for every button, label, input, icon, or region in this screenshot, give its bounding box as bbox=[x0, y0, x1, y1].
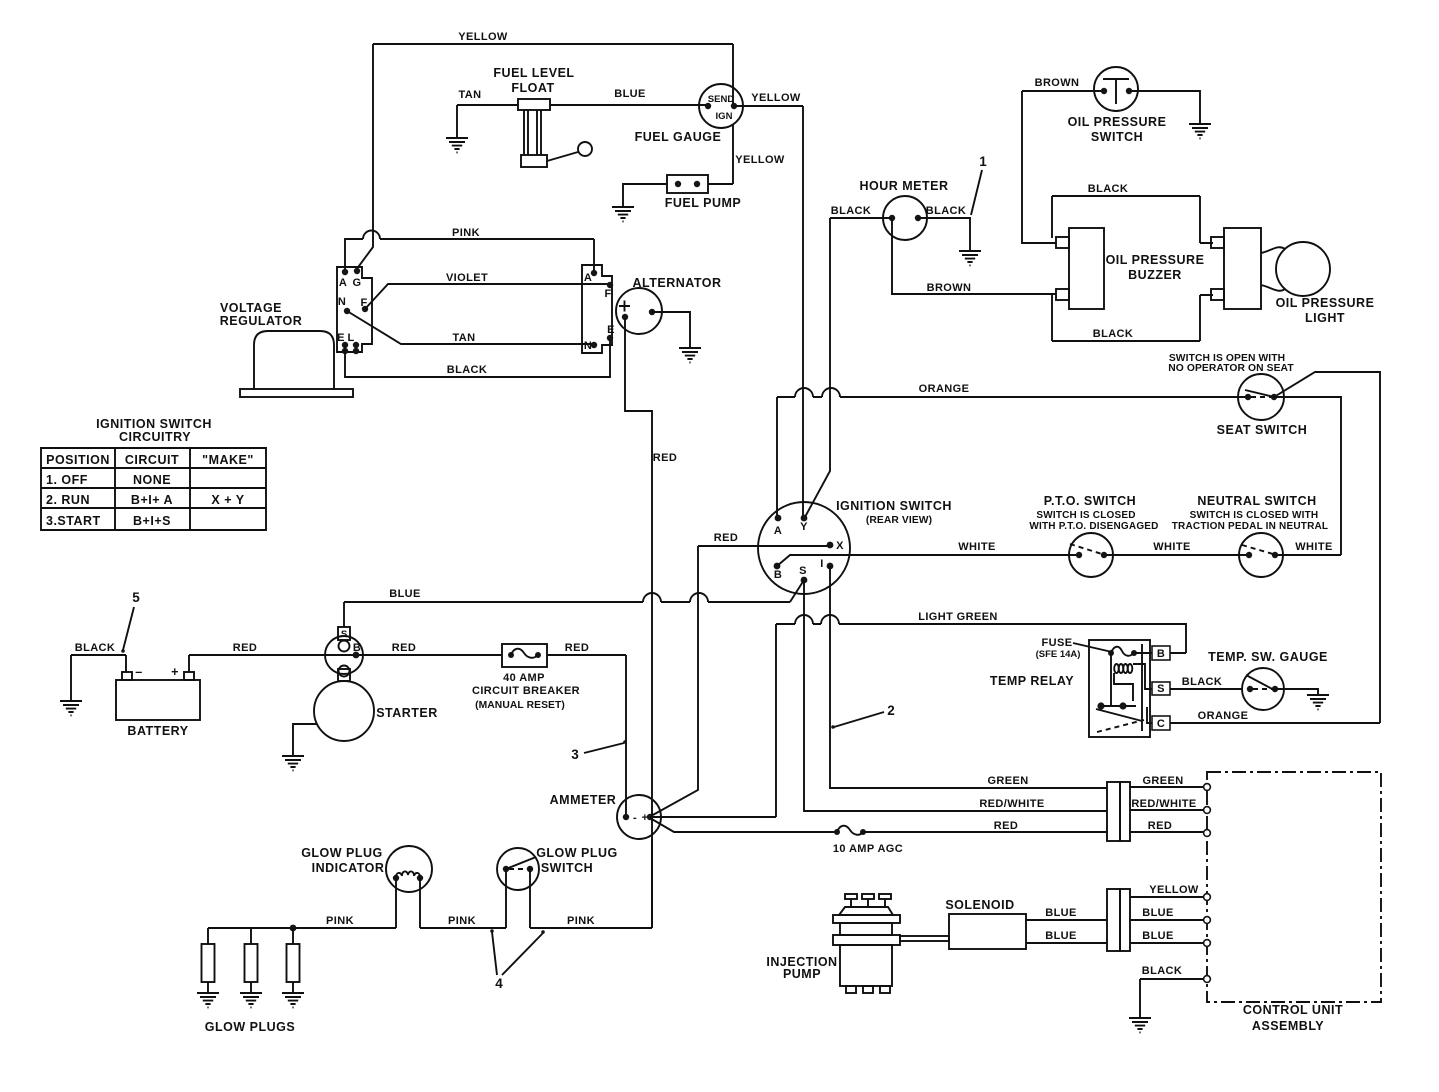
svg-text:YELLOW: YELLOW bbox=[1149, 884, 1199, 896]
svg-text:X: X bbox=[836, 540, 844, 552]
svg-text:-: - bbox=[633, 812, 637, 824]
svg-text:BATTERY: BATTERY bbox=[127, 724, 188, 738]
svg-text:BLACK: BLACK bbox=[831, 205, 872, 217]
svg-text:GLOW PLUG: GLOW PLUG bbox=[301, 846, 383, 860]
svg-text:(SFE 14A): (SFE 14A) bbox=[1036, 649, 1081, 660]
svg-text:PINK: PINK bbox=[326, 915, 354, 927]
svg-text:SWITCH: SWITCH bbox=[1091, 130, 1143, 144]
svg-text:LIGHT: LIGHT bbox=[1305, 311, 1345, 325]
svg-text:BLUE: BLUE bbox=[1142, 930, 1174, 942]
svg-text:(REAR VIEW): (REAR VIEW) bbox=[866, 515, 932, 526]
svg-text:CIRCUIT BREAKER: CIRCUIT BREAKER bbox=[472, 685, 580, 697]
svg-text:1: 1 bbox=[979, 154, 987, 169]
svg-text:RED: RED bbox=[1148, 820, 1172, 832]
svg-text:BLACK: BLACK bbox=[75, 642, 116, 654]
svg-text:–: – bbox=[135, 665, 142, 679]
svg-text:ORANGE: ORANGE bbox=[1198, 710, 1249, 722]
svg-text:3.START: 3.START bbox=[46, 514, 101, 528]
svg-text:WITH P.T.O. DISENGAGED: WITH P.T.O. DISENGAGED bbox=[1029, 521, 1158, 532]
svg-text:LIGHT GREEN: LIGHT GREEN bbox=[918, 611, 998, 623]
svg-text:OIL PRESSURE: OIL PRESSURE bbox=[1068, 115, 1167, 129]
svg-text:WHITE: WHITE bbox=[958, 541, 995, 553]
svg-text:FUSE: FUSE bbox=[1042, 637, 1073, 649]
svg-text:B+I+ A: B+I+ A bbox=[131, 493, 173, 507]
svg-text:E: E bbox=[607, 324, 615, 336]
svg-text:CIRCUIT: CIRCUIT bbox=[125, 453, 179, 467]
svg-text:REGULATOR: REGULATOR bbox=[220, 314, 303, 328]
svg-text:SWITCH IS CLOSED: SWITCH IS CLOSED bbox=[1036, 510, 1135, 521]
svg-text:40 AMP: 40 AMP bbox=[503, 672, 545, 684]
svg-text:PINK: PINK bbox=[448, 915, 476, 927]
svg-text:NO OPERATOR ON SEAT: NO OPERATOR ON SEAT bbox=[1168, 363, 1294, 374]
svg-text:B: B bbox=[353, 642, 361, 654]
svg-text:NEUTRAL SWITCH: NEUTRAL SWITCH bbox=[1197, 494, 1316, 508]
svg-text:1. OFF: 1. OFF bbox=[46, 473, 88, 487]
svg-text:3: 3 bbox=[571, 747, 579, 762]
svg-text:CONTROL UNIT: CONTROL UNIT bbox=[1243, 1003, 1343, 1017]
svg-text:X + Y: X + Y bbox=[211, 493, 244, 507]
svg-text:PINK: PINK bbox=[567, 915, 595, 927]
svg-text:NONE: NONE bbox=[133, 473, 171, 487]
svg-text:BLACK: BLACK bbox=[1093, 328, 1134, 340]
svg-text:+: + bbox=[642, 812, 649, 824]
svg-text:4: 4 bbox=[495, 976, 503, 991]
svg-text:SEAT SWITCH: SEAT SWITCH bbox=[1217, 423, 1308, 437]
svg-text:WHITE: WHITE bbox=[1295, 541, 1332, 553]
svg-text:BLACK: BLACK bbox=[1088, 183, 1129, 195]
svg-text:S: S bbox=[341, 629, 347, 640]
svg-text:BLUE: BLUE bbox=[1142, 907, 1174, 919]
svg-text:N: N bbox=[584, 340, 592, 352]
svg-text:TAN: TAN bbox=[453, 332, 476, 344]
svg-text:S: S bbox=[799, 565, 807, 577]
svg-text:TEMP RELAY: TEMP RELAY bbox=[990, 674, 1074, 688]
svg-text:TAN: TAN bbox=[459, 89, 482, 101]
svg-text:RED/WHITE: RED/WHITE bbox=[1131, 798, 1196, 810]
svg-text:"MAKE": "MAKE" bbox=[202, 453, 254, 467]
svg-text:FUEL PUMP: FUEL PUMP bbox=[665, 196, 742, 210]
svg-text:A: A bbox=[339, 277, 347, 289]
svg-text:RED: RED bbox=[565, 642, 589, 654]
svg-text:OIL PRESSURE: OIL PRESSURE bbox=[1106, 253, 1205, 267]
svg-text:E: E bbox=[337, 332, 345, 344]
svg-text:ORANGE: ORANGE bbox=[919, 383, 970, 395]
svg-text:RED: RED bbox=[653, 452, 677, 464]
svg-text:SWITCH: SWITCH bbox=[541, 861, 593, 875]
svg-text:G: G bbox=[353, 277, 362, 289]
svg-text:HOUR METER: HOUR METER bbox=[859, 179, 948, 193]
svg-text:(MANUAL RESET): (MANUAL RESET) bbox=[475, 700, 565, 711]
svg-text:2: 2 bbox=[887, 703, 895, 718]
svg-text:BLUE: BLUE bbox=[1045, 930, 1077, 942]
svg-text:L: L bbox=[347, 332, 354, 344]
svg-text:VIOLET: VIOLET bbox=[446, 272, 488, 284]
svg-text:B: B bbox=[1157, 648, 1165, 660]
svg-text:FUEL GAUGE: FUEL GAUGE bbox=[635, 130, 722, 144]
svg-text:S: S bbox=[1157, 683, 1165, 695]
svg-text:SOLENOID: SOLENOID bbox=[945, 898, 1014, 912]
svg-text:A: A bbox=[584, 272, 592, 284]
svg-text:BLUE: BLUE bbox=[614, 88, 646, 100]
svg-text:CIRCUITRY: CIRCUITRY bbox=[119, 430, 191, 444]
svg-text:BUZZER: BUZZER bbox=[1128, 268, 1182, 282]
svg-text:C: C bbox=[1157, 718, 1165, 730]
svg-text:5: 5 bbox=[132, 590, 140, 605]
svg-text:ASSEMBLY: ASSEMBLY bbox=[1252, 1019, 1324, 1033]
svg-text:VOLTAGE: VOLTAGE bbox=[220, 301, 282, 315]
svg-text:SEND: SEND bbox=[708, 94, 735, 105]
svg-text:F: F bbox=[604, 288, 611, 300]
svg-text:BLUE: BLUE bbox=[1045, 907, 1077, 919]
svg-text:YELLOW: YELLOW bbox=[751, 92, 801, 104]
svg-text:STARTER: STARTER bbox=[376, 706, 438, 720]
svg-text:PUMP: PUMP bbox=[783, 967, 821, 981]
svg-text:BLACK: BLACK bbox=[926, 205, 967, 217]
svg-text:PINK: PINK bbox=[452, 227, 480, 239]
svg-text:BLACK: BLACK bbox=[1142, 965, 1183, 977]
svg-text:GREEN: GREEN bbox=[1142, 775, 1183, 787]
svg-text:B+I+S: B+I+S bbox=[133, 514, 171, 528]
svg-text:RED: RED bbox=[392, 642, 416, 654]
svg-text:2. RUN: 2. RUN bbox=[46, 493, 90, 507]
svg-text:BLUE: BLUE bbox=[389, 588, 421, 600]
svg-text:P.T.O. SWITCH: P.T.O. SWITCH bbox=[1044, 494, 1136, 508]
svg-text:TEMP. SW. GAUGE: TEMP. SW. GAUGE bbox=[1208, 650, 1328, 664]
svg-text:TRACTION PEDAL IN NEUTRAL: TRACTION PEDAL IN NEUTRAL bbox=[1172, 521, 1328, 532]
svg-text:RED: RED bbox=[714, 532, 738, 544]
svg-text:GLOW PLUGS: GLOW PLUGS bbox=[205, 1020, 295, 1034]
svg-text:I: I bbox=[820, 558, 823, 570]
svg-text:BLACK: BLACK bbox=[1182, 676, 1223, 688]
svg-text:GREEN: GREEN bbox=[987, 775, 1028, 787]
svg-text:RED/WHITE: RED/WHITE bbox=[979, 798, 1044, 810]
svg-text:YELLOW: YELLOW bbox=[458, 31, 508, 43]
svg-text:GLOW PLUG: GLOW PLUG bbox=[536, 846, 618, 860]
svg-text:SWITCH IS CLOSED WITH: SWITCH IS CLOSED WITH bbox=[1190, 510, 1319, 521]
svg-text:+: + bbox=[171, 665, 179, 679]
svg-text:N: N bbox=[338, 296, 346, 308]
svg-text:IGNITION SWITCH: IGNITION SWITCH bbox=[96, 417, 212, 431]
svg-text:BLACK: BLACK bbox=[447, 364, 488, 376]
svg-text:WHITE: WHITE bbox=[1153, 541, 1190, 553]
svg-text:BROWN: BROWN bbox=[927, 282, 972, 294]
svg-text:RED: RED bbox=[994, 820, 1018, 832]
svg-text:IGN: IGN bbox=[716, 111, 733, 122]
svg-text:YELLOW: YELLOW bbox=[735, 154, 785, 166]
svg-text:A: A bbox=[774, 525, 782, 537]
svg-text:INDICATOR: INDICATOR bbox=[312, 861, 385, 875]
svg-text:AMMETER: AMMETER bbox=[550, 793, 617, 807]
svg-text:POSITION: POSITION bbox=[46, 453, 110, 467]
svg-text:RED: RED bbox=[233, 642, 257, 654]
svg-text:Y: Y bbox=[800, 521, 808, 533]
svg-text:FLOAT: FLOAT bbox=[511, 81, 554, 95]
svg-text:BROWN: BROWN bbox=[1035, 77, 1080, 89]
svg-text:B: B bbox=[774, 569, 782, 581]
svg-text:OIL PRESSURE: OIL PRESSURE bbox=[1276, 296, 1375, 310]
svg-text:IGNITION SWITCH: IGNITION SWITCH bbox=[836, 499, 952, 513]
svg-text:10 AMP AGC: 10 AMP AGC bbox=[833, 843, 903, 855]
svg-text:ALTERNATOR: ALTERNATOR bbox=[632, 276, 721, 290]
svg-text:FUEL LEVEL: FUEL LEVEL bbox=[493, 66, 574, 80]
